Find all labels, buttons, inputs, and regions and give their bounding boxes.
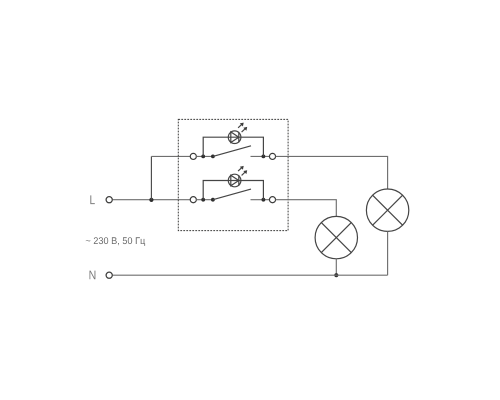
dashed enclosure (switch unit): [178, 119, 288, 230]
wire lamp 1 to N: [387, 231, 389, 275]
wire N: [113, 274, 388, 276]
node L junction: [149, 198, 153, 202]
wire S2 fixed contact stub: [251, 199, 270, 201]
switch gang 2: [190, 166, 275, 203]
node S1 bypass drop: [262, 155, 266, 159]
terminal S1 input: [190, 153, 196, 159]
wire lamp 2 to N: [335, 259, 337, 275]
LED D2: [228, 174, 241, 187]
switch S1 blade: [213, 146, 251, 157]
label L: [90, 195, 95, 204]
terminal S2 output: [269, 197, 275, 203]
node S2 pivot: [211, 198, 215, 202]
LED D1: [228, 131, 241, 144]
switch gang 1: [190, 123, 275, 160]
wire branch to switch 1: [151, 155, 190, 157]
wire L feed: [113, 199, 190, 201]
wire S1 fixed contact stub: [251, 155, 270, 157]
lamp HL1: [366, 189, 408, 231]
LED D1 arrows: [238, 123, 247, 133]
terminal L: [106, 197, 112, 203]
label N: [90, 271, 96, 280]
wire switch 2 to lamp 2: [276, 200, 337, 217]
wire S1 input stub: [196, 155, 214, 157]
terminal S2 input: [190, 197, 196, 203]
terminal S1 output: [269, 153, 275, 159]
terminal N: [106, 272, 112, 278]
node S2 bypass tap: [201, 198, 205, 202]
node S1 pivot: [211, 155, 215, 159]
lamp HL2: [315, 216, 357, 258]
node N junction: [334, 273, 338, 277]
label voltage rating: [86, 237, 145, 246]
wire S1 LED bypass: [203, 137, 263, 156]
wire S2 input stub: [196, 199, 214, 201]
node S2 bypass drop: [262, 198, 266, 202]
wire branch vertical: [150, 156, 152, 199]
wire S2 LED bypass: [203, 181, 263, 200]
wire switch 1 to lamp 1: [276, 156, 388, 189]
LED D2 arrows: [238, 166, 247, 176]
node S1 bypass tap: [201, 155, 205, 159]
switch S2 blade: [213, 189, 251, 200]
